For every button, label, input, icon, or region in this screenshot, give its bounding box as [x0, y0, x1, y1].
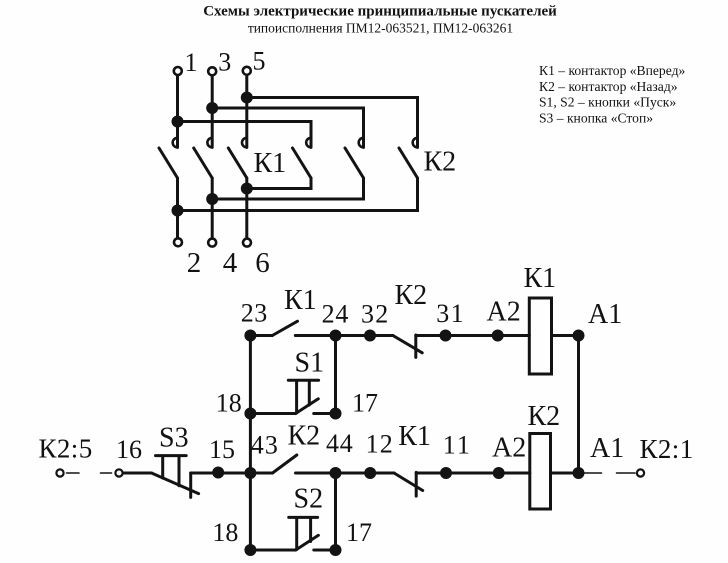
wire S3 to node 15: [191, 472, 273, 475]
svg-text:S1: S1: [295, 348, 325, 379]
node 43 junction on bus: [244, 467, 256, 479]
contact K2 pole b fixed contact: [359, 138, 364, 148]
wire 24-17 vertical: [334, 336, 337, 414]
terminal 5: [243, 67, 251, 75]
node 23 junction: [244, 330, 256, 342]
wire phase L1 lower: [176, 178, 179, 238]
wire phase L2 lower: [211, 178, 214, 238]
node 24 junction: [330, 330, 342, 342]
contact K2 pole c blade: [399, 148, 418, 178]
contact K1 pole 1 fixed contact: [173, 138, 178, 148]
wire phase L3 upper: [245, 75, 248, 147]
node 32 junction: [364, 330, 376, 342]
contact K1 NC bar: [415, 472, 418, 496]
button S2 blade: [296, 535, 319, 550]
terminal 3: [208, 67, 216, 75]
wire K2 pole b bottom: [212, 178, 363, 199]
wire phase L3 lower: [245, 178, 248, 238]
button S3 actuator: [156, 456, 187, 486]
svg-text:A2: A2: [487, 297, 521, 328]
junction L1 bottom: [172, 205, 184, 217]
contact K2 pole b blade: [345, 148, 364, 178]
contact K1 pole 3 fixed contact: [242, 138, 247, 148]
terminal 1: [174, 67, 182, 75]
svg-text:2: 2: [187, 247, 202, 279]
junction L1 top: [172, 116, 184, 128]
junction L3 top: [241, 92, 253, 104]
button S2 actuator: [289, 517, 318, 549]
svg-text:4: 4: [223, 247, 238, 279]
wire rung2 segment coil-A1: [551, 472, 579, 475]
wire rung1 segment coil-A1: [552, 334, 579, 337]
button S1 blade: [296, 399, 319, 414]
svg-text:К2 – контактор «Назад»: К2 – контактор «Назад»: [539, 79, 678, 94]
wire 16 to S3: [124, 472, 152, 475]
terminal 16: [115, 469, 122, 476]
node 17 junction S2 row: [330, 544, 342, 556]
svg-text:Схемы электрические принципиал: Схемы электрические принципиальные пуска…: [203, 4, 557, 20]
wire rung1 segment 23: [250, 334, 272, 337]
svg-text:17: 17: [352, 388, 378, 417]
contact K1 pole 2 fixed contact: [207, 138, 212, 148]
contact K1 pole 2 blade: [194, 148, 213, 178]
svg-text:5: 5: [253, 47, 266, 76]
coil K2: [530, 434, 551, 510]
node 17 junction S1 row: [330, 408, 342, 420]
svg-text:12: 12: [366, 430, 394, 459]
wire A1 vertical: [577, 336, 580, 474]
wire S1 right segment: [314, 412, 336, 415]
contact K2 NC blade (32-31): [393, 336, 422, 353]
node 18 junction S1 row: [244, 408, 256, 420]
wire L3 to K2 pole c: [247, 98, 418, 148]
wire dash K2:1 b: [617, 472, 636, 474]
svg-text:32: 32: [361, 300, 389, 329]
svg-text:1: 1: [185, 48, 198, 77]
svg-text:К2:5: К2:5: [39, 434, 93, 464]
svg-text:К2: К2: [528, 401, 561, 432]
svg-text:A2: A2: [492, 433, 526, 464]
terminal K2:1: [637, 469, 644, 476]
contact K1 pole 1 blade: [159, 148, 178, 178]
wire L2 to K2 pole b: [212, 108, 363, 147]
svg-text:44: 44: [326, 429, 354, 458]
node A1 junction rung2: [573, 467, 585, 479]
svg-text:23: 23: [241, 299, 268, 328]
terminal 6: [243, 239, 251, 247]
terminal 4: [208, 239, 216, 247]
button S3 bar: [189, 473, 192, 497]
svg-text:S3: S3: [159, 423, 189, 454]
svg-text:43: 43: [251, 431, 279, 460]
contact K1 NC blade (12-11): [394, 473, 423, 491]
button S3 blade: [152, 473, 199, 494]
wire L1 to K2 pole a: [178, 122, 312, 148]
node 44 junction: [330, 467, 342, 479]
terminal 2: [174, 238, 182, 246]
node 18 junction S2 row: [244, 544, 256, 556]
wire S2 right segment: [314, 549, 336, 552]
contact K2 pole a fixed contact: [306, 138, 311, 148]
wire rung1 segment 31-A2: [416, 334, 530, 337]
button S1 actuator: [288, 380, 318, 413]
svg-text:К2: К2: [424, 147, 457, 178]
wire K2 pole a bottom: [247, 178, 311, 189]
wire left bus vertical: [249, 336, 252, 551]
junction L3 bottom: [241, 183, 253, 195]
svg-text:3: 3: [218, 48, 231, 77]
svg-text:К2: К2: [395, 280, 428, 311]
svg-text:К1: К1: [398, 421, 431, 452]
svg-text:31: 31: [436, 299, 465, 328]
node 31 junction: [440, 330, 452, 342]
wire rung2 segment 11-A2: [416, 472, 530, 475]
contact K2 pole a blade: [293, 148, 312, 178]
svg-text:К2:1: К2:1: [640, 434, 694, 464]
wire dash K2:1 a: [584, 472, 602, 474]
wire phase L2 upper: [211, 76, 214, 148]
node 11 junction: [440, 467, 452, 479]
svg-text:S2: S2: [294, 484, 324, 515]
wire K2 pole c bottom: [178, 178, 418, 211]
svg-text:11: 11: [443, 431, 472, 460]
junction L2 bottom: [206, 193, 218, 205]
svg-text:S3 – кнопка «Стоп»: S3 – кнопка «Стоп»: [539, 110, 653, 125]
svg-text:К2: К2: [288, 421, 321, 452]
contact K1 pole 3 blade: [228, 148, 247, 178]
wire S1 left segment: [250, 412, 295, 415]
svg-text:6: 6: [255, 247, 269, 279]
svg-text:15: 15: [209, 435, 235, 464]
svg-text:18: 18: [216, 389, 242, 418]
coil K1: [529, 298, 551, 374]
svg-text:К1: К1: [254, 148, 287, 179]
svg-text:17: 17: [346, 518, 372, 547]
node A1 junction rung1: [573, 330, 585, 342]
junction L2 top: [206, 102, 218, 114]
node 15 junction: [212, 467, 224, 479]
svg-text:S1, S2 – кнопки «Пуск»: S1, S2 – кнопки «Пуск»: [539, 95, 676, 110]
contact K1 NO blade (23-24): [272, 321, 297, 335]
wire dash K2:5 a: [67, 472, 80, 474]
svg-text:типоисполнения ПМ12-063521, ПМ: типоисполнения ПМ12-063521, ПМ12-063261: [248, 21, 513, 36]
terminal K2:5: [56, 469, 63, 476]
svg-text:18: 18: [212, 518, 238, 547]
contact K2 NC bar: [414, 335, 417, 357]
svg-text:A1: A1: [588, 299, 622, 330]
wire rung1 segment 24-32: [295, 334, 393, 337]
contact K2 NO blade (43-44): [273, 455, 297, 473]
node A2 junction rung1: [492, 330, 504, 342]
svg-text:16: 16: [116, 435, 142, 464]
svg-text:К1: К1: [524, 263, 557, 294]
wire dash K2:5 b: [101, 472, 112, 474]
svg-text:К1 – контактор «Вперед»: К1 – контактор «Вперед»: [539, 63, 686, 78]
wire rung2 segment 44-12: [296, 472, 395, 475]
node A2 junction rung2: [493, 467, 505, 479]
wire S2 left segment: [250, 549, 295, 552]
node 12 junction: [364, 467, 376, 479]
wire phase L1 upper: [176, 76, 179, 148]
svg-text:К1: К1: [284, 285, 317, 316]
contact K2 pole c fixed contact: [413, 138, 418, 148]
wire 44-17 vertical: [334, 473, 337, 550]
svg-text:A1: A1: [590, 433, 624, 464]
svg-text:24: 24: [322, 300, 350, 329]
